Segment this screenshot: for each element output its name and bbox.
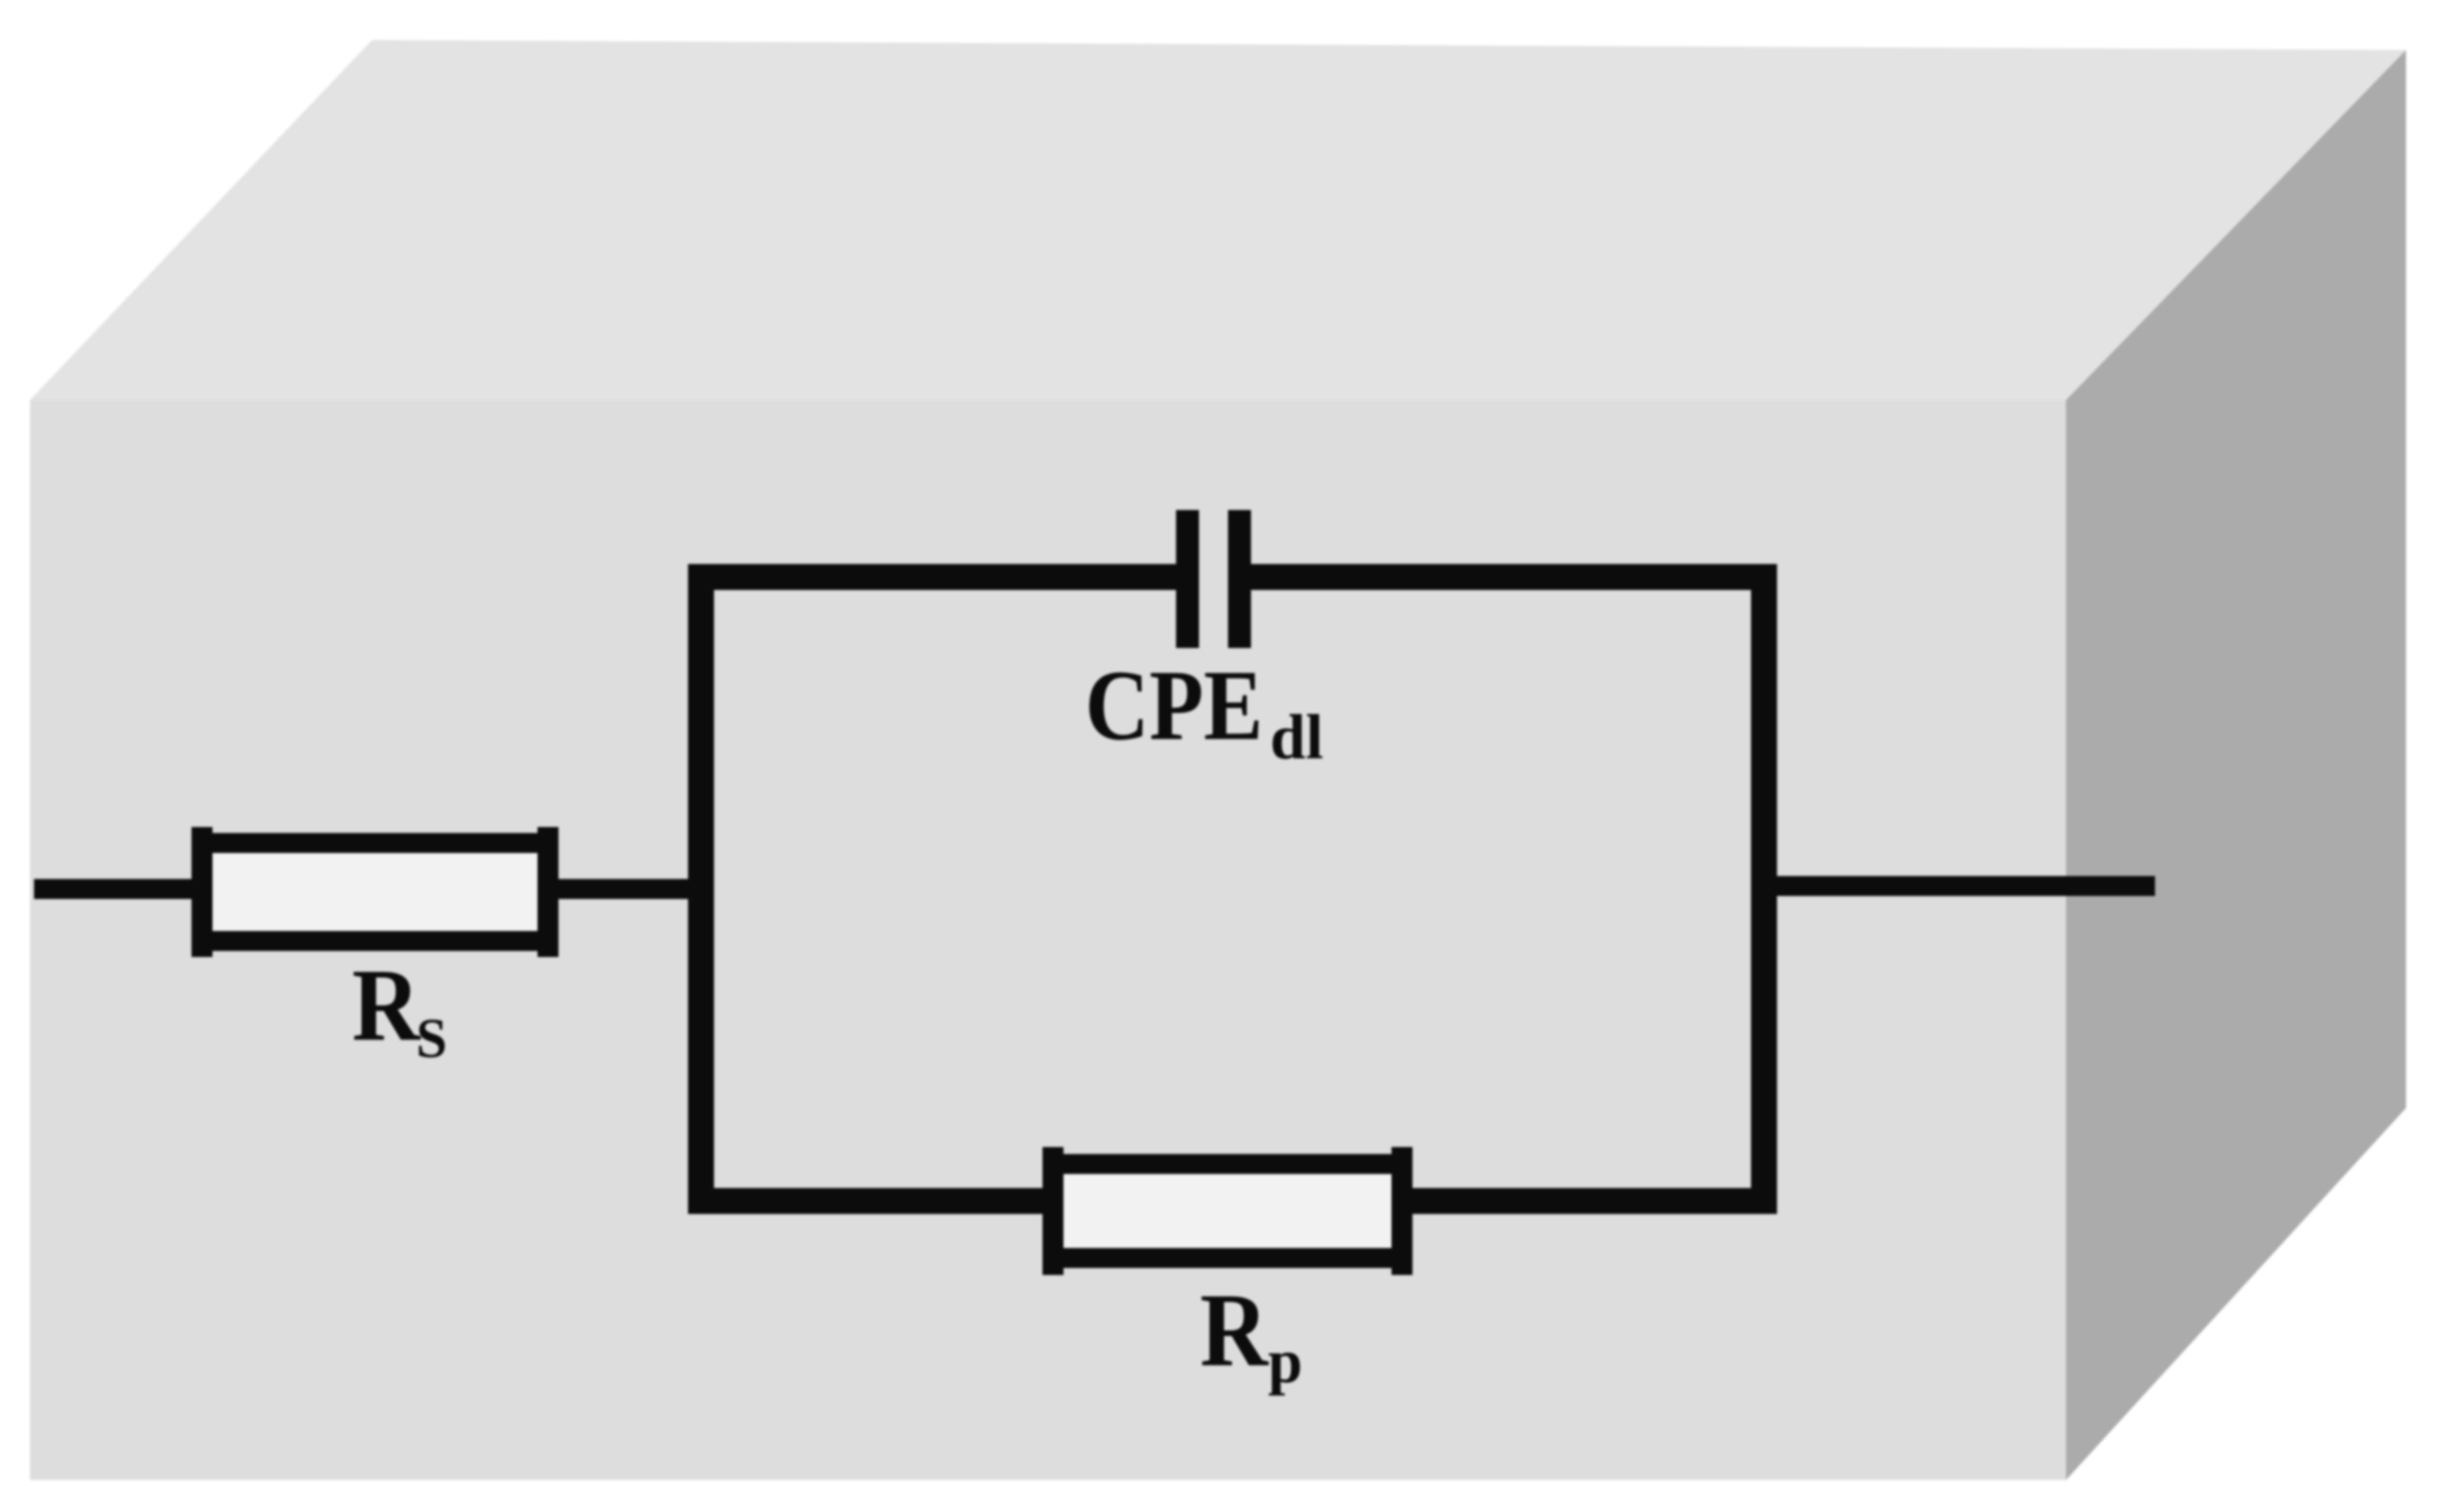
svg-text:R: R [1200,1271,1269,1388]
svg-text:p: p [1268,1328,1302,1396]
svg-text:dl: dl [1270,701,1323,772]
svg-text:S: S [416,1008,447,1070]
svg-text:R: R [352,948,422,1063]
svg-text:CPE: CPE [1085,649,1263,761]
